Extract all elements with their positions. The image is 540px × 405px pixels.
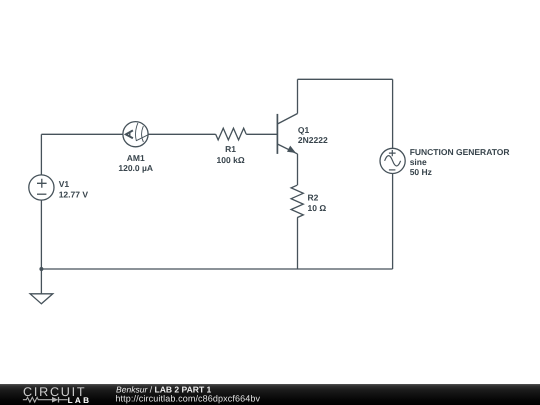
R1 designator label (225, 144, 236, 154)
svg-text:R2: R2 (308, 193, 319, 203)
wire V1 top to corner (40, 134, 42, 175)
svg-text:sine: sine (410, 157, 427, 167)
AM1 designator label (127, 153, 145, 163)
junction node at V1/ground (39, 267, 43, 271)
footer bar (0, 384, 540, 405)
function generator V2 (380, 148, 405, 173)
wire top rail (298, 78, 393, 80)
CircuitLab logo icon diode (52, 397, 68, 403)
svg-text:2N2222: 2N2222 (298, 135, 328, 145)
voltage source V1 (29, 175, 54, 200)
wire FG bottom to bottom rail (392, 174, 394, 270)
svg-text:FUNCTION GENERATOR: FUNCTION GENERATOR (410, 147, 510, 157)
function generator value label 50 Hz (410, 167, 432, 177)
R2 designator label (308, 193, 319, 203)
wire V1 bottom to bottom rail (40, 200, 42, 269)
wire junction to ground (40, 269, 42, 294)
wire bottom rail (41, 268, 392, 270)
ammeter AM1 (123, 122, 148, 147)
Q1 designator label (298, 125, 310, 135)
svg-text:12.77 V: 12.77 V (59, 189, 89, 199)
svg-text:AM1: AM1 (127, 153, 145, 163)
svg-text:V1: V1 (59, 179, 70, 189)
AM1 value label 120.0 uA (118, 163, 153, 173)
footer url line (115, 394, 260, 404)
Q1 value label 2N2222 (298, 135, 328, 145)
V1 value label 12.77 V (59, 189, 89, 199)
svg-text:http://circuitlab.com/c86dpxcf: http://circuitlab.com/c86dpxcf664bv (115, 394, 260, 404)
svg-text:R1: R1 (225, 144, 236, 154)
R2 value label 10 Ohm (308, 203, 327, 213)
CircuitLab logo text CIRCUIT (23, 385, 86, 399)
svg-text:120.0 µA: 120.0 µA (118, 163, 153, 173)
wire Q1 emitter to R2 top (297, 154, 299, 185)
wire corner to AM1 left (41, 133, 123, 135)
svg-text:100 kΩ: 100 kΩ (217, 155, 245, 165)
wire right rail to FG top (392, 79, 394, 148)
svg-text:Q1: Q1 (298, 125, 310, 135)
function generator name label (410, 147, 510, 157)
ground (30, 294, 53, 304)
resistor R1 (216, 128, 247, 140)
V1 designator label (59, 179, 70, 189)
R1 value label 100 kOhm (217, 155, 245, 165)
wire Q1 collector to top rail (297, 79, 299, 113)
transistor Q1 (277, 114, 297, 154)
Q1 emitter arrow (287, 146, 296, 153)
wire R1 right to Q1 base (246, 133, 277, 135)
wire AM1 right to R1 left (148, 133, 216, 135)
svg-text:10 Ω: 10 Ω (308, 203, 327, 213)
svg-text:LAB: LAB (68, 396, 92, 405)
footer author title line (116, 384, 212, 394)
function generator type label sine (410, 157, 427, 167)
CircuitLab logo text LAB (68, 396, 92, 405)
svg-text:50 Hz: 50 Hz (410, 167, 432, 177)
resistor R2 (291, 185, 303, 217)
CircuitLab logo icon resistor zigzag (23, 397, 52, 402)
wire R2 bottom to bottom rail (297, 218, 299, 269)
